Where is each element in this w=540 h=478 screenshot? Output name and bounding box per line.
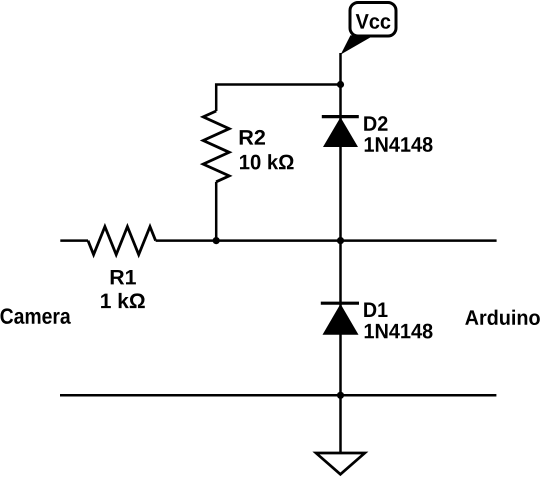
label Arduino <box>465 310 540 325</box>
ground symbol <box>316 453 365 474</box>
label Camera <box>1 308 71 324</box>
value 1N4148 (D2) <box>365 137 433 152</box>
wire to ground <box>339 395 342 452</box>
wire R2 top branch <box>216 85 340 112</box>
label D1 <box>364 303 387 317</box>
junction dot bottom node <box>337 392 344 399</box>
wire middle left lead (Camera side) <box>60 239 88 242</box>
value 1 kOhm <box>101 293 145 308</box>
wire R2 bottom lead <box>215 182 218 241</box>
junction dot R2 bottom node <box>213 237 220 244</box>
diode D2 triangle <box>323 117 358 147</box>
wire middle node to bottom node (vertical through D1) <box>339 241 342 396</box>
diode D2 cathode bar <box>322 115 359 118</box>
junction dot middle node <box>337 237 344 244</box>
label D2 <box>364 116 387 131</box>
wire bottom horizontal <box>60 394 496 397</box>
diode D1 triangle <box>323 304 359 335</box>
label R1 <box>111 270 136 284</box>
wire Vcc to middle node (vertical through D2) <box>339 53 342 241</box>
wire middle horizontal to Arduino side <box>156 239 497 242</box>
diode D1 cathode bar <box>321 302 359 305</box>
value 10 kOhm <box>240 154 294 169</box>
resistor R1 zigzag <box>88 227 156 255</box>
node Vcc bubble <box>341 3 396 55</box>
junction dot at Vcc / R2 branch <box>337 81 344 88</box>
label Vcc text <box>356 14 391 29</box>
resistor R2 zigzag <box>203 111 229 182</box>
value 1N4148 (D1) <box>365 324 433 339</box>
label R2 <box>240 130 265 145</box>
